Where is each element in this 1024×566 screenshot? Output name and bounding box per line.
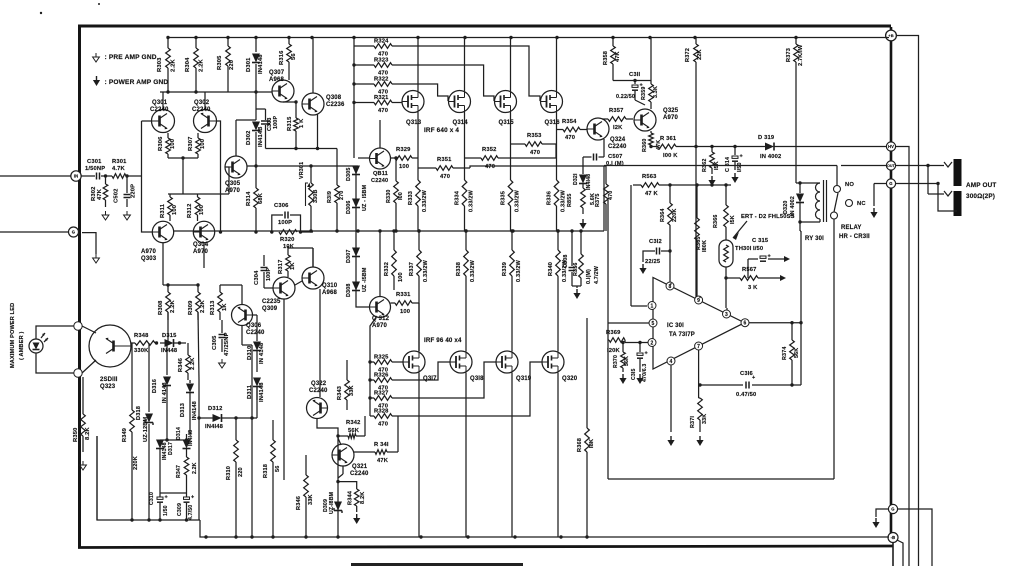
label C306 value bbox=[278, 220, 292, 226]
wire rail to VR301 bbox=[301, 231, 314, 233]
bus B dot 9 bbox=[559, 535, 562, 538]
dot rail92 c bbox=[254, 90, 257, 93]
svg-text:I8K: I8K bbox=[589, 439, 595, 448]
label Q302 type bbox=[192, 107, 211, 113]
label R370 value bbox=[624, 356, 630, 366]
resistor R325 bbox=[374, 360, 392, 365]
bus B dot 10 bbox=[585, 535, 588, 538]
svg-text:C507: C507 bbox=[608, 154, 622, 160]
label D305 bbox=[346, 168, 352, 182]
label R319 bbox=[327, 191, 333, 203]
svg-text:100: 100 bbox=[400, 309, 410, 315]
gnd C308R356 bbox=[573, 289, 580, 299]
op-amp pin 6 bbox=[741, 319, 749, 327]
label Q321 bbox=[352, 464, 368, 470]
dot R332 bbox=[392, 229, 395, 232]
wire Q310 collector bbox=[312, 248, 314, 267]
label R313 bbox=[210, 300, 216, 315]
label Q3I8 bbox=[470, 376, 484, 382]
wire col 252b bbox=[250, 416, 253, 537]
wire Q303 collector bbox=[162, 243, 164, 285]
svg-text:Q321: Q321 bbox=[352, 464, 368, 470]
label D308 bbox=[346, 284, 352, 298]
wire pin8 up bbox=[670, 283, 672, 285]
svg-text:UZ-12BM: UZ-12BM bbox=[143, 417, 149, 442]
resistor R307 bbox=[196, 133, 201, 158]
label R311 value bbox=[172, 205, 178, 215]
svg-text:56: 56 bbox=[291, 53, 297, 60]
svg-text:R322: R322 bbox=[374, 77, 388, 83]
label AMP OUT bbox=[966, 182, 996, 189]
label Q322 bbox=[311, 381, 327, 387]
resistor R368 bbox=[585, 318, 590, 537]
wire C308 R356 join bbox=[572, 286, 581, 288]
wire pin6 right bbox=[749, 321, 803, 324]
gnd C313 bbox=[636, 374, 643, 384]
resistor R333 bbox=[416, 180, 421, 206]
svg-text:5: 5 bbox=[652, 321, 655, 327]
svg-text:56K: 56K bbox=[794, 348, 800, 358]
wire pin3 up bbox=[726, 308, 728, 310]
label D307 bbox=[346, 250, 352, 264]
label Q305 bbox=[225, 181, 241, 187]
resistor R344 bbox=[336, 480, 359, 512]
label Q310 type bbox=[322, 290, 337, 296]
svg-text:G: G bbox=[889, 181, 892, 186]
svg-text:R328: R328 bbox=[374, 409, 389, 415]
label C301 bbox=[87, 159, 102, 165]
svg-text:R346: R346 bbox=[296, 496, 302, 510]
label D310 value bbox=[259, 342, 265, 364]
svg-text:R567: R567 bbox=[742, 267, 756, 273]
wire Q312 emitter to stack bbox=[370, 316, 377, 330]
svg-text:100: 100 bbox=[200, 139, 206, 149]
speaker bar top bbox=[954, 159, 962, 186]
dot rail92 b bbox=[194, 90, 197, 93]
label R301 value bbox=[112, 166, 126, 172]
label R322 value bbox=[378, 90, 388, 96]
transistor Q302 bbox=[194, 110, 217, 133]
label Q306 bbox=[246, 323, 262, 329]
label R346b value bbox=[190, 358, 196, 370]
svg-text:3 K: 3 K bbox=[748, 285, 758, 291]
wire R338 top bbox=[465, 231, 467, 250]
label D318 value bbox=[143, 417, 149, 442]
label R320 bbox=[280, 237, 294, 243]
terminal +B bbox=[886, 30, 897, 41]
mid rail dot bbox=[464, 229, 467, 232]
label R373 bbox=[786, 48, 792, 62]
wire Q314 source bbox=[464, 112, 466, 150]
svg-text:D307: D307 bbox=[346, 250, 352, 264]
label R337 value bbox=[423, 260, 429, 282]
label Q302 bbox=[194, 100, 210, 106]
label C316 value bbox=[736, 392, 756, 398]
resistor R358 bbox=[611, 38, 616, 81]
svg-text:R349: R349 bbox=[122, 428, 128, 442]
gnd G right bbox=[870, 208, 877, 218]
op-amp pin 5 bbox=[649, 319, 657, 327]
label R358 value bbox=[615, 51, 621, 62]
label R336 bbox=[547, 191, 553, 205]
svg-text:R338: R338 bbox=[456, 262, 462, 276]
bus B dot 3 bbox=[271, 535, 274, 538]
svg-text:Q3I8: Q3I8 bbox=[470, 376, 484, 382]
label Q303 type bbox=[141, 249, 156, 255]
label R312 value bbox=[199, 205, 205, 215]
wire pin2 left bbox=[625, 342, 648, 344]
label Q323 bbox=[100, 384, 116, 390]
svg-text:C2240: C2240 bbox=[608, 144, 627, 150]
label R305 bbox=[217, 55, 223, 70]
svg-text:6: 6 bbox=[744, 321, 747, 327]
svg-text:IN4I48: IN4I48 bbox=[188, 430, 194, 446]
label VR301 value bbox=[313, 190, 319, 204]
svg-text:8.2K: 8.2K bbox=[360, 492, 366, 504]
dot 576 237 bbox=[570, 229, 573, 232]
label D316 value bbox=[162, 382, 168, 403]
label R351 value bbox=[440, 174, 450, 180]
label R372 bbox=[685, 48, 691, 62]
bus ground B step bbox=[200, 520, 889, 537]
label R309 value bbox=[200, 299, 206, 313]
label R308 value bbox=[170, 299, 176, 313]
svg-text:22K: 22K bbox=[697, 49, 703, 60]
resistor R346 bbox=[186, 343, 191, 380]
label R353 value bbox=[530, 150, 540, 156]
gnd R371 bbox=[696, 436, 703, 446]
resistor R312 bbox=[195, 194, 200, 221]
svg-text:I/50: I/50 bbox=[753, 246, 763, 252]
diode D308 bbox=[352, 282, 370, 308]
label R368 value bbox=[589, 439, 595, 448]
dot R338 bbox=[464, 229, 467, 232]
resistor R321 bbox=[374, 100, 392, 105]
wire R323 to Q315 bbox=[392, 65, 494, 101]
bus A dot 4 bbox=[185, 518, 188, 521]
svg-text:R372: R372 bbox=[685, 48, 691, 62]
svg-text:8: 8 bbox=[669, 284, 672, 290]
svg-text:100P: 100P bbox=[273, 116, 279, 129]
label 300ohm bbox=[966, 193, 995, 200]
svg-text:100P: 100P bbox=[278, 220, 292, 226]
svg-text:2.2K: 2.2K bbox=[170, 299, 176, 313]
label R340 value bbox=[562, 260, 568, 282]
legend power-amp gnd text bbox=[105, 79, 169, 86]
terminal OUT bbox=[886, 161, 895, 170]
label R362 value bbox=[714, 161, 720, 170]
svg-text:0.22/50: 0.22/50 bbox=[616, 94, 635, 100]
resistor R342 bbox=[336, 434, 365, 439]
diode D313 bbox=[186, 380, 194, 434]
label VR301 bbox=[299, 162, 305, 179]
svg-text:R333: R333 bbox=[408, 191, 414, 205]
wire Q305 base bbox=[225, 167, 229, 194]
label Q308 type bbox=[326, 102, 345, 108]
wire pin9 up bbox=[699, 296, 701, 298]
resistor R349 bbox=[130, 343, 135, 520]
label Q325 type bbox=[663, 115, 678, 121]
label R360 value bbox=[656, 140, 662, 150]
resistor R335 bbox=[508, 180, 513, 206]
label R369 value bbox=[607, 348, 621, 354]
label R324 value bbox=[378, 52, 388, 58]
label D302 bbox=[246, 131, 252, 145]
svg-text:R37I: R37I bbox=[690, 416, 696, 428]
resistor R309 bbox=[196, 285, 201, 320]
wire Q306 emitter bbox=[242, 326, 252, 418]
bus A dot 2 bbox=[147, 518, 150, 521]
op-amp pin 1 bbox=[648, 302, 656, 310]
label R320 value bbox=[283, 244, 295, 250]
wire Q308 collector bbox=[312, 38, 314, 94]
label R342 value bbox=[348, 428, 360, 434]
label R371 value bbox=[702, 414, 708, 424]
label R352 value bbox=[485, 164, 495, 170]
resistor R374 bbox=[790, 321, 795, 387]
label R370 bbox=[613, 355, 619, 368]
label C304 bbox=[254, 270, 260, 285]
svg-text:C3I5: C3I5 bbox=[631, 368, 637, 380]
top bus dot 8 bbox=[463, 36, 466, 39]
label R361 value bbox=[663, 153, 678, 159]
wire R322 to Q314 bbox=[392, 84, 448, 101]
mid rail dot bbox=[417, 229, 420, 232]
resistor R362 bbox=[710, 145, 715, 174]
node dot C502 bbox=[125, 174, 128, 177]
resistor R367 bbox=[726, 276, 780, 281]
svg-text:R339: R339 bbox=[502, 262, 508, 276]
label D315 value bbox=[161, 348, 178, 354]
terminal -B bottom bbox=[888, 533, 898, 543]
wire ERT arrow bbox=[733, 221, 747, 240]
bus A dot 3 bbox=[158, 518, 161, 521]
wire Q320 drain down bbox=[557, 373, 559, 537]
connector circle bottom bbox=[74, 369, 82, 377]
label R367 bbox=[742, 267, 756, 273]
label R367 value bbox=[748, 285, 758, 291]
wire R317 C304 join bbox=[264, 248, 313, 288]
bus B dot 8 bbox=[513, 535, 516, 538]
svg-text:+B: +B bbox=[888, 33, 894, 38]
svg-text:100: 100 bbox=[172, 205, 178, 215]
op-amp pin 3 bbox=[723, 310, 731, 318]
mid rail dot bbox=[394, 229, 397, 232]
label C305 value bbox=[224, 332, 230, 356]
svg-text:R354: R354 bbox=[562, 119, 577, 125]
svg-text:C2240: C2240 bbox=[350, 471, 369, 477]
svg-text:NO: NO bbox=[845, 182, 854, 188]
svg-text:Q322: Q322 bbox=[311, 381, 327, 387]
top bus dot 10 bbox=[555, 36, 558, 39]
svg-text:56: 56 bbox=[275, 465, 281, 472]
svg-text:R366: R366 bbox=[713, 215, 719, 229]
mid rail dot bbox=[356, 229, 359, 232]
svg-text:R305: R305 bbox=[217, 55, 223, 70]
svg-text:1/50NP: 1/50NP bbox=[85, 166, 105, 172]
svg-text:300Ω(2P): 300Ω(2P) bbox=[966, 193, 995, 200]
label Q325 bbox=[663, 108, 679, 114]
label Q3I7 bbox=[423, 376, 437, 382]
svg-text:56K: 56K bbox=[348, 428, 360, 434]
svg-text:470: 470 bbox=[608, 191, 614, 200]
svg-text:D312: D312 bbox=[208, 406, 222, 412]
label IRF640 bbox=[424, 127, 459, 134]
resistor R373 bbox=[794, 38, 799, 76]
wire speaker drop bbox=[928, 166, 944, 195]
bus B dot 7 bbox=[466, 535, 469, 538]
svg-text:R340: R340 bbox=[548, 262, 554, 276]
svg-text:TA 73I7P: TA 73I7P bbox=[669, 332, 695, 338]
svg-text:D305: D305 bbox=[346, 168, 352, 182]
label R324 bbox=[374, 39, 389, 45]
label R308 bbox=[158, 300, 164, 315]
label R301 bbox=[112, 159, 127, 165]
wire OUT to speaker bbox=[896, 164, 944, 167]
wire Q325 collector bbox=[644, 108, 646, 110]
bus A dot 1 bbox=[130, 518, 133, 521]
label R357 bbox=[609, 108, 623, 114]
svg-text:D 319: D 319 bbox=[758, 135, 775, 141]
svg-text:3: 3 bbox=[725, 312, 728, 318]
LED power indicator bbox=[29, 333, 48, 353]
label R349 bbox=[122, 428, 128, 442]
wire arm down bbox=[833, 219, 835, 479]
label R344 bbox=[348, 490, 354, 505]
label R323 value bbox=[378, 71, 388, 77]
op-amp pin 9 bbox=[695, 296, 703, 304]
svg-text:220K: 220K bbox=[672, 209, 678, 223]
label R345 value bbox=[308, 494, 314, 505]
wire input node bbox=[126, 175, 142, 177]
thermistor TH301 bbox=[719, 240, 733, 267]
legend pre-amp gnd text bbox=[105, 54, 157, 61]
svg-text:Q304: Q304 bbox=[193, 242, 209, 248]
label R304 value bbox=[199, 58, 205, 72]
diode D317 bbox=[156, 440, 164, 494]
label R354 value bbox=[565, 135, 575, 141]
label R329 value bbox=[399, 164, 409, 170]
diode D306 bbox=[352, 199, 360, 208]
label R315 value bbox=[299, 118, 305, 128]
wire box left bbox=[607, 200, 609, 479]
label C314 bbox=[725, 157, 731, 172]
top supply bus bbox=[168, 37, 889, 39]
svg-text:56K: 56K bbox=[624, 356, 630, 366]
mosfet Q319 bbox=[496, 351, 518, 373]
svg-text:Q315: Q315 bbox=[499, 120, 515, 126]
svg-text:C2240: C2240 bbox=[309, 388, 328, 394]
svg-text:UZ - I5BM: UZ - I5BM bbox=[362, 184, 368, 211]
capacitor C311 bbox=[632, 81, 645, 106]
diode D312 bbox=[199, 414, 236, 422]
resistor R306 bbox=[166, 133, 171, 158]
label R358 bbox=[603, 51, 609, 65]
ground C502 bbox=[124, 211, 131, 220]
resistor R371 bbox=[698, 398, 703, 432]
label D317b bbox=[168, 442, 174, 455]
svg-text:D306: D306 bbox=[346, 201, 352, 215]
resistor R329 bbox=[391, 156, 419, 161]
label R355 bbox=[567, 194, 573, 208]
resistor R343 bbox=[345, 360, 350, 410]
svg-text:220P: 220P bbox=[131, 184, 137, 198]
label R374 bbox=[782, 347, 788, 361]
label R327 value bbox=[378, 404, 388, 410]
diode D310 bbox=[253, 326, 261, 372]
label C306 bbox=[274, 203, 289, 209]
label Q310 bbox=[322, 283, 338, 289]
capacitor C314 bbox=[732, 145, 743, 170]
wire R308 top join bbox=[163, 283, 200, 286]
svg-text:IN: IN bbox=[74, 174, 79, 179]
connector circle top bbox=[74, 322, 82, 330]
label R338 value bbox=[470, 260, 476, 282]
label R366 value bbox=[730, 215, 736, 224]
svg-text:C305: C305 bbox=[212, 335, 218, 350]
wire Q311 base bbox=[358, 157, 370, 159]
label Q314 bbox=[453, 120, 469, 126]
transistor Q301 bbox=[152, 110, 175, 133]
resistor R355 bbox=[581, 188, 586, 214]
svg-text:C306: C306 bbox=[274, 203, 289, 209]
svg-text:R304: R304 bbox=[185, 57, 191, 72]
svg-text:R855: R855 bbox=[567, 194, 573, 208]
svg-text:IN 4002: IN 4002 bbox=[790, 196, 796, 216]
mosfet Q313 bbox=[402, 91, 424, 113]
label R374 value bbox=[794, 348, 800, 358]
svg-text:TH30I: TH30I bbox=[735, 246, 752, 252]
mid rail dot bbox=[556, 229, 559, 232]
svg-text:IC 30I: IC 30I bbox=[667, 323, 684, 329]
label R316 value bbox=[291, 53, 297, 60]
label R313 value bbox=[222, 303, 228, 311]
label R359 value bbox=[653, 86, 659, 98]
svg-text:A968: A968 bbox=[269, 77, 284, 83]
svg-text:D302: D302 bbox=[246, 131, 252, 145]
wire Q309 emitter col bbox=[283, 299, 285, 480]
label MAXIMUM POWER LED bbox=[10, 303, 16, 368]
capacitor C316 bbox=[746, 375, 755, 389]
resistor R331 bbox=[391, 301, 420, 351]
capacitor C309 bbox=[184, 493, 195, 520]
label D311 bbox=[247, 384, 253, 399]
label R326 value bbox=[378, 386, 388, 392]
label R327 bbox=[374, 391, 388, 397]
wire R335 top bbox=[510, 150, 512, 180]
resistor R339 bbox=[510, 250, 515, 276]
svg-text:R375: R375 bbox=[595, 194, 601, 208]
svg-text:C502: C502 bbox=[114, 189, 120, 203]
label C502 bbox=[114, 189, 120, 203]
label D321b bbox=[573, 173, 579, 185]
svg-text:470: 470 bbox=[530, 150, 540, 156]
wire Q312 collector bbox=[378, 229, 381, 296]
label D312 bbox=[208, 406, 222, 412]
label Q319 bbox=[516, 376, 532, 382]
svg-text:0.33/2W: 0.33/2W bbox=[470, 260, 476, 282]
svg-text:Q305: Q305 bbox=[225, 181, 241, 187]
svg-text:R314: R314 bbox=[246, 191, 252, 206]
label Q303 bbox=[141, 256, 157, 262]
gnd R344 bbox=[353, 514, 360, 524]
arrow R367 bbox=[780, 275, 786, 281]
wire R351 bend bbox=[470, 166, 570, 168]
resistor R304 bbox=[194, 38, 199, 93]
op-amp pin 2 bbox=[648, 339, 656, 347]
wire D311 to D312 bbox=[234, 387, 257, 420]
svg-text:0.33/2W: 0.33/2W bbox=[561, 190, 567, 212]
